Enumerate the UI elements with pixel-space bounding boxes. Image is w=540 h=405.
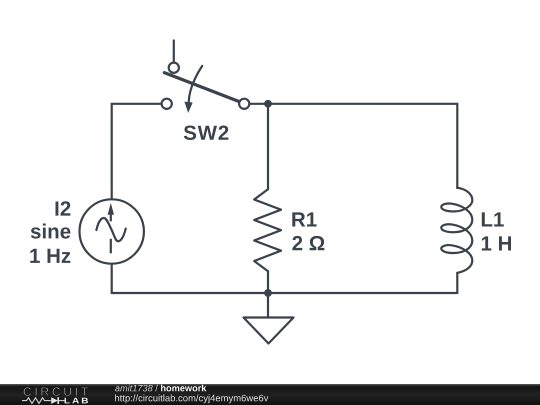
- label sine: [31, 224, 71, 239]
- wire left vertical (I2 bottom to bottom rail): [111, 264, 113, 293]
- current source I2: [30, 199, 144, 263]
- wire middle vertical (R1 to bottom node): [267, 271, 269, 293]
- wire switch top stub: [173, 41, 175, 62]
- current source I2 circle: [80, 199, 144, 263]
- label I2: [56, 201, 71, 215]
- footer credit project name: [161, 385, 206, 392]
- inductor L1: [441, 188, 511, 273]
- CircuitLab logo diode bar: [57, 397, 59, 404]
- switch SW2 left terminal circle: [162, 99, 172, 109]
- wire right vertical (top corner to L1): [456, 104, 458, 188]
- switch SW2 right terminal circle: [239, 99, 249, 109]
- resistor R1: [254, 189, 324, 271]
- current source I2 arrow shaft bottom: [110, 239, 112, 254]
- wire top-left horizontal (left terminal to left corner): [112, 103, 162, 105]
- switch SW2 blade: [164, 73, 239, 102]
- wire top horizontal (switch right terminal to right corner): [250, 103, 458, 105]
- wire bottom rail: [112, 292, 458, 294]
- current source I2 arrow shaft top: [110, 214, 112, 221]
- CircuitLab logo diode triangle: [51, 397, 58, 404]
- label 2 ohm: [292, 236, 324, 250]
- footer bar: [0, 384, 540, 405]
- node junction top (switch to R1 branch): [264, 100, 272, 108]
- label R1: [292, 212, 316, 226]
- resistor R1 zigzag: [254, 189, 281, 271]
- wire right vertical (L1 to bottom rail): [456, 273, 458, 293]
- ground symbol: [244, 318, 294, 344]
- current source I2 arrowhead: [108, 203, 114, 215]
- switch SW2 arrowhead: [184, 102, 192, 113]
- switch SW2 top terminal circle: [169, 63, 179, 73]
- label L1: [482, 212, 504, 226]
- CircuitLab logo wire to LAB: [58, 400, 64, 402]
- CircuitLab logo resistor squiggle: [22, 398, 51, 404]
- CircuitLab logo wordmark LAB: [65, 398, 88, 404]
- current source I2 sine wave: [96, 218, 125, 241]
- label SW2: [184, 126, 229, 141]
- wire middle vertical (top node to R1): [267, 104, 269, 190]
- footer credit author name: [115, 385, 158, 392]
- inductor L1 coil: [441, 188, 472, 273]
- wire ground stub: [267, 293, 269, 318]
- switch SW2: [162, 41, 250, 141]
- label 1 Hz: [30, 249, 70, 263]
- switch SW2 actuation arc: [189, 66, 203, 102]
- footer url: [115, 394, 268, 403]
- node junction bottom (R1 to ground rail): [264, 289, 272, 297]
- wire left vertical (corner down to I2 top): [111, 104, 113, 200]
- CircuitLab logo wordmark CIRCUIT: [24, 387, 89, 396]
- label 1 H: [482, 236, 511, 250]
